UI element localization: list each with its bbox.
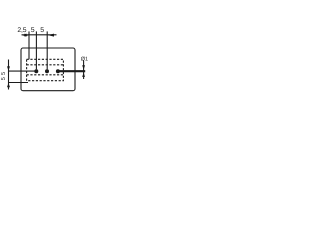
svg-text:2,5: 2,5 xyxy=(17,27,26,34)
svg-text:5: 5 xyxy=(1,72,7,75)
svg-text:5: 5 xyxy=(31,27,35,34)
svg-text:5: 5 xyxy=(40,27,44,34)
svg-text:5: 5 xyxy=(1,77,7,80)
svg-text:Ø1: Ø1 xyxy=(81,57,88,63)
